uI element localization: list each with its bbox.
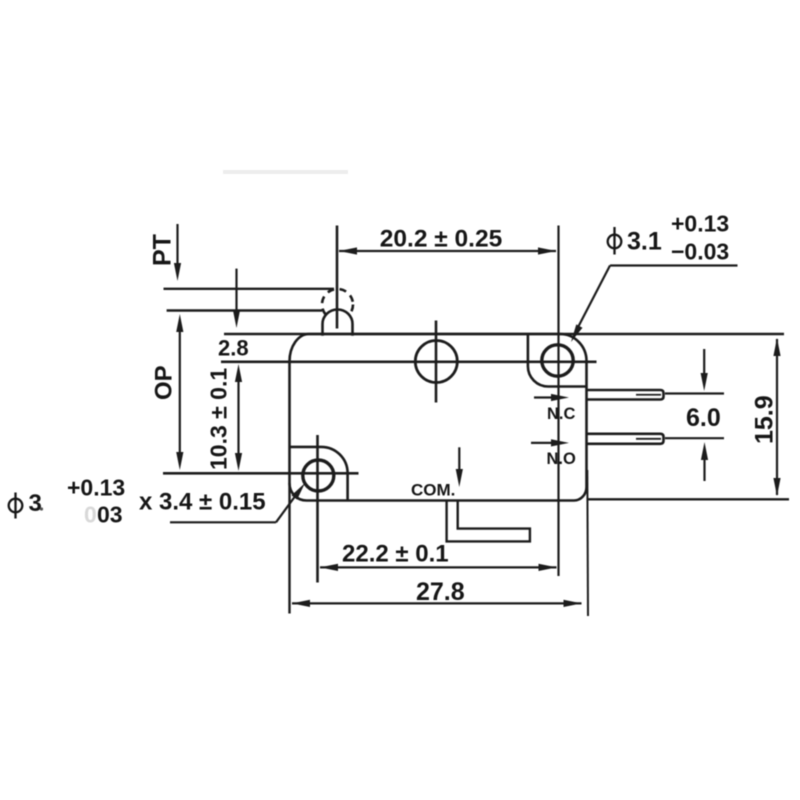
top middle hole (415, 341, 457, 383)
bottom left hole boss outline (290, 447, 348, 500)
hole size symbol φ (bottom left) (9, 499, 23, 513)
PT arrowhead down (174, 263, 181, 281)
OP arrowhead down (176, 452, 183, 470)
top right hole boss outline (528, 335, 586, 387)
top middle hole vertical centerline (435, 321, 438, 403)
6.0 arrowhead down (701, 373, 708, 391)
15.9 arrowhead up (773, 338, 780, 356)
terminal pin COM (L-shaped) (447, 500, 530, 541)
faint scan smudge (223, 170, 348, 174)
svg-text:N.C: N.C (547, 405, 576, 423)
terminal pin N.C (587, 390, 664, 400)
svg-text:+0.13: +0.13 (671, 211, 729, 237)
svg-text:+0.13: +0.13 (67, 475, 125, 501)
10.3 dimension line (237, 381, 239, 454)
leader underline x3.4 (170, 521, 276, 523)
svg-text:COM.: COM. (411, 481, 455, 500)
N.C pointer arrowhead (551, 394, 569, 401)
arrowhead 22.2 left (320, 564, 338, 571)
arrowhead 20.2 left (339, 247, 357, 254)
svg-text:20.2 ± 0.25: 20.2 ± 0.25 (380, 226, 502, 253)
N.O pointer arrowhead (551, 439, 569, 446)
svg-text:−0.03: −0.03 (671, 239, 729, 265)
body left edge extension line (288, 483, 290, 614)
N.C pointer arrow line (534, 396, 552, 398)
6.0 upper arrow line (703, 349, 705, 374)
pin N.O tip detail line (636, 438, 661, 440)
dimension line 20.2 (339, 250, 556, 252)
terminal pin N.O (587, 434, 664, 444)
dimension line 22.2 (320, 566, 557, 568)
N.O pointer arrow line (531, 442, 552, 444)
svg-text:15.9: 15.9 (751, 395, 779, 444)
10.3 arrowhead down (235, 453, 242, 471)
leader diagonal x3.4 (276, 495, 296, 522)
svg-text:PT: PT (149, 234, 177, 266)
small period after 3 (40, 507, 43, 510)
svg-text:0: 0 (84, 502, 97, 528)
hole size symbol φ (top right) (608, 235, 622, 249)
switch body outline (290, 334, 587, 501)
svg-text:3.1: 3.1 (627, 228, 662, 256)
6.0 lower extension line (665, 437, 724, 439)
15.9 arrowhead down (773, 478, 780, 496)
dashed circle: plunger free position (322, 289, 353, 320)
OP dimension line (179, 329, 181, 454)
15.9 dimension line (776, 339, 778, 495)
dimension line 27.8 (292, 602, 582, 604)
free position line (164, 288, 335, 290)
leader arrowhead x3.4 (292, 483, 306, 500)
6.0 arrowhead up (701, 442, 708, 460)
6.0 lower arrow line (703, 459, 705, 481)
svg-text:6.0: 6.0 (686, 404, 721, 432)
plunger centerline / extension line (336, 226, 339, 329)
leader arrowhead φ3.1 (571, 324, 583, 342)
svg-text:22.2 ± 0.1: 22.2 ± 0.1 (342, 541, 449, 568)
top holes centerline (221, 360, 597, 363)
bottom left hole horizontal centerline (163, 472, 359, 475)
svg-text:x 3.4 ± 0.15: x 3.4 ± 0.15 (139, 489, 266, 516)
arrowhead 27.8 right (564, 600, 582, 607)
PT dimension arrow line (176, 224, 178, 272)
svg-text:10.3 ± 0.1: 10.3 ± 0.1 (206, 368, 232, 470)
bottom left mounting hole (303, 460, 334, 491)
svg-text:3: 3 (29, 490, 42, 517)
plunger button (323, 310, 353, 336)
svg-text:03: 03 (97, 502, 123, 528)
OP arrowhead up (176, 314, 183, 332)
operating position line (167, 309, 322, 311)
10.3 arrowhead up (235, 364, 242, 382)
leader underline φ3.1 (610, 264, 738, 266)
6.0 upper extension line (665, 392, 724, 394)
bottom right extension line (588, 498, 789, 500)
body right edge extension line (586, 470, 589, 616)
top right mounting hole (542, 345, 573, 376)
arrowhead 27.8 left (292, 600, 310, 607)
svg-text:2.8: 2.8 (218, 336, 249, 361)
bottom left hole vertical centerline / extension line (316, 435, 319, 583)
leader diagonal φ3.1 (575, 266, 610, 334)
arrowhead 22.2 right (539, 564, 557, 571)
pin N.C tip detail line (636, 394, 661, 396)
2.8 arrowhead down (233, 310, 240, 328)
body top edge extended (extension line for 2.8 and 15.9) (224, 333, 784, 336)
arrowhead 20.2 right (538, 247, 556, 254)
svg-text:OP: OP (151, 365, 178, 400)
2.8 upper arrow line (235, 269, 237, 315)
COM pointer arrowhead (456, 469, 463, 487)
svg-text:N.O: N.O (547, 450, 577, 468)
COM pointer arrow line (458, 447, 460, 470)
svg-text:27.8: 27.8 (416, 578, 465, 606)
top right hole vertical centerline / extension line (557, 226, 559, 577)
